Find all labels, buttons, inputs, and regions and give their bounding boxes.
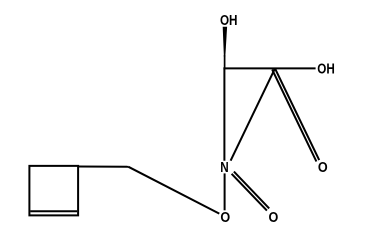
label O bottom xyxy=(220,208,230,225)
cyclobutene double bond inner line xyxy=(30,210,77,212)
wire bond C2-N diagonal xyxy=(231,68,275,160)
wire bond CH2-O xyxy=(128,167,219,214)
wire bond O-N xyxy=(224,173,226,210)
wedge stem xyxy=(224,55,226,68)
double bond C2=O line A xyxy=(275,68,319,160)
svg-text:N: N xyxy=(220,159,228,176)
label N xyxy=(220,159,228,176)
wire bond N-C1 vertical xyxy=(223,67,225,160)
svg-text:O: O xyxy=(318,158,328,175)
label OH top xyxy=(220,12,238,29)
cyclobutene ring xyxy=(29,166,78,216)
double bond N=O line B xyxy=(234,172,269,209)
svg-text:O: O xyxy=(269,208,279,225)
wire bond C1-C2-OH horizontal xyxy=(223,67,315,69)
svg-text:O: O xyxy=(220,208,230,225)
wedge bond C1-OH xyxy=(223,27,227,57)
label O carbonyl right xyxy=(318,158,328,175)
svg-text:OH: OH xyxy=(317,60,335,77)
label O nitroso bottom right xyxy=(269,208,279,225)
label OH right xyxy=(317,60,335,77)
double bond C2=O line B xyxy=(272,70,316,162)
wire bond ring-CH2 xyxy=(78,166,128,168)
svg-text:OH: OH xyxy=(220,12,238,29)
double bond N=O line A xyxy=(232,174,267,211)
